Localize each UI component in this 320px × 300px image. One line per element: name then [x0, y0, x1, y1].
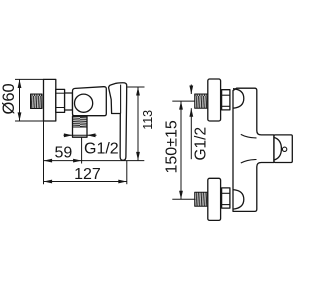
svg-text:113: 113	[141, 110, 155, 130]
svg-text:Ø60: Ø60	[0, 83, 18, 114]
svg-text:G1/2: G1/2	[193, 127, 210, 161]
svg-text:59: 59	[55, 145, 73, 162]
svg-text:127: 127	[74, 166, 101, 183]
svg-text:G1/2: G1/2	[84, 141, 119, 158]
svg-text:150±15: 150±15	[164, 120, 181, 173]
